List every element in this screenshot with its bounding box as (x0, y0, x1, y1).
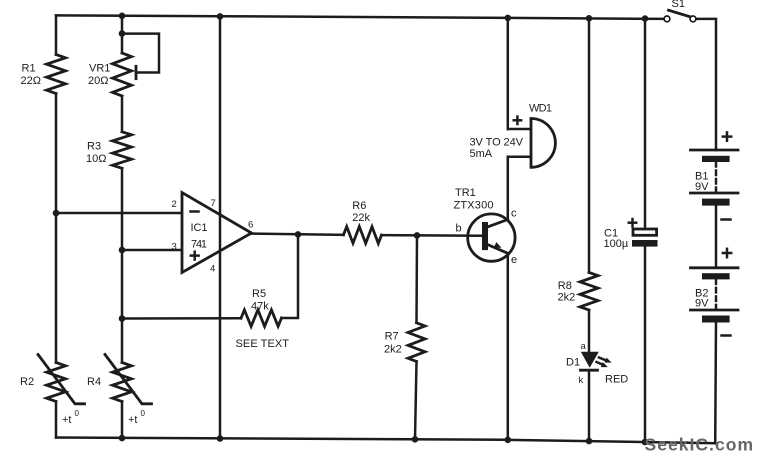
wire op-amp output to TR1 base (252, 234, 344, 235)
wire R5 feedback path (122, 317, 241, 320)
resistor R5 (241, 310, 282, 327)
svg-text:c: c (511, 208, 517, 220)
op-amp IC1 741 (182, 193, 252, 273)
thermistor R2 (47, 363, 66, 402)
svg-text:4: 4 (210, 264, 215, 275)
svg-text:R3: R3 (87, 141, 101, 153)
svg-text:10Ω: 10Ω (86, 153, 106, 165)
svg-text:S1: S1 (672, 0, 685, 10)
svg-text:+t: +t (128, 414, 137, 426)
transistor TR1 ZTX300 (468, 214, 515, 261)
node top rail / divider column (119, 13, 126, 20)
svg-text:2k2: 2k2 (558, 292, 576, 304)
wire VR1 wiper loop (122, 34, 159, 73)
svg-text:k: k (579, 375, 584, 386)
potentiometer VR1 (113, 53, 132, 96)
node bottom rail / R7 (412, 436, 419, 443)
svg-text:WD1: WD1 (529, 103, 552, 115)
svg-text:R4: R4 (87, 376, 101, 388)
LED D1 (581, 352, 599, 368)
wire top supply rail (56, 15, 664, 19)
LED light arrows (599, 358, 607, 361)
thermistor R4 (113, 363, 132, 402)
node top rail / WD1 branch (505, 15, 512, 22)
svg-text:100µ: 100µ (604, 238, 629, 250)
svg-text:ZTX300: ZTX300 (454, 200, 494, 212)
resistor R6 (344, 227, 382, 244)
svg-text:b: b (456, 223, 462, 235)
svg-text:e: e (511, 254, 517, 266)
node bottom rail / divider column (119, 435, 126, 442)
svg-text:2k2: 2k2 (384, 344, 402, 356)
capacitor C1 (633, 229, 657, 235)
node bottom rail / C1 (642, 439, 649, 446)
svg-text:R7: R7 (385, 331, 399, 343)
wire top rail to WD1 (507, 18, 510, 129)
wire switch to battery corner (696, 19, 716, 150)
svg-text:22Ω: 22Ω (21, 75, 41, 87)
svg-text:47k: 47k (251, 301, 269, 313)
svg-text:7: 7 (211, 198, 216, 209)
svg-text:22k: 22k (352, 212, 370, 224)
node output / R5 feedback junction (295, 231, 302, 238)
node R6 / R7 / base junction (414, 232, 421, 239)
svg-text:R5: R5 (252, 288, 266, 300)
svg-text:VR1: VR1 (89, 63, 110, 75)
node bottom rail / D1 (586, 438, 593, 445)
wire between batteries (715, 206, 718, 268)
svg-text:R8: R8 (558, 280, 572, 292)
wire emitter to ground rail (507, 253, 510, 439)
wire battery to bottom rail (714, 323, 717, 444)
node pin3 tap (119, 247, 126, 254)
wire op-amp supply column (219, 16, 222, 438)
wire left column (R1/R2 branch) (55, 15, 58, 54)
wire bottom ground rail (56, 438, 715, 444)
svg-text:9V: 9V (695, 298, 709, 310)
node bottom rail / op-amp supply (217, 435, 224, 442)
svg-text:741: 741 (191, 239, 207, 251)
svg-text:R2: R2 (20, 376, 34, 388)
svg-text:0: 0 (75, 409, 80, 418)
svg-text:+t: +t (62, 414, 71, 426)
wire inverting input (pin 2) (56, 212, 182, 215)
sounder WD1 (508, 128, 531, 131)
node bottom rail / emitter (505, 437, 512, 444)
svg-text:SeekIC.com: SeekIC.com (645, 435, 754, 455)
wire R8/D1 column (588, 18, 591, 272)
wire VR1/R3/R4 column (121, 16, 124, 53)
svg-text:IC1: IC1 (191, 222, 208, 234)
battery B2 9V (691, 266, 739, 269)
wire collector to WD1 (507, 157, 510, 220)
resistor R8 (580, 273, 598, 311)
wire non-inverting input (pin 3) (122, 249, 182, 252)
svg-text:R1: R1 (22, 63, 36, 75)
svg-text:0: 0 (141, 409, 146, 418)
node top rail / R8 branch (586, 15, 593, 22)
svg-text:TR1: TR1 (455, 187, 476, 199)
svg-text:2: 2 (172, 199, 177, 210)
wire C1 column (644, 19, 647, 229)
svg-text:9V: 9V (695, 181, 709, 193)
svg-text:a: a (581, 341, 587, 352)
svg-text:D1: D1 (566, 356, 580, 368)
svg-text:RED: RED (605, 374, 628, 386)
svg-text:6: 6 (248, 220, 253, 231)
svg-text:R6: R6 (352, 200, 366, 212)
resistor R3 (113, 132, 132, 169)
node R5 tap on divider column (119, 315, 126, 322)
node top rail / C1 branch (642, 15, 649, 22)
resistor R1 (47, 55, 66, 94)
node VR1 top junction (119, 30, 126, 37)
svg-text:3V TO 24V: 3V TO 24V (470, 137, 524, 149)
battery B1 9V (715, 149, 718, 152)
node top rail / op-amp supply (217, 13, 224, 20)
resistor R7 (415, 236, 418, 323)
node pin2 tap (53, 210, 60, 217)
svg-text:20Ω: 20Ω (88, 75, 108, 87)
svg-text:3: 3 (172, 242, 177, 253)
svg-text:5mA: 5mA (470, 148, 493, 160)
svg-text:SEE TEXT: SEE TEXT (236, 338, 290, 350)
